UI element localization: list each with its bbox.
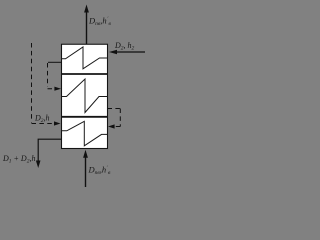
drain 1 dashed run into heater 2 [48,88,57,90]
feedwater inlet pipe (bottom) [85,155,87,187]
divider between heater 1 and heater 2 [62,73,108,75]
svg-text:D2, h2: D2, h2 [114,41,135,52]
long dashed extraction wire (left) [31,43,33,123]
heater 3 coil symbol [62,121,108,146]
combined drain arrowhead (down) [36,161,41,169]
divider between heater 2 and heater 3 [62,116,108,118]
svg-text:Dпв,h´в: Dпв,h´в [88,16,112,28]
heater column body [62,44,108,148]
dashed run into heater 3 [32,123,56,125]
drain bracket arrowhead into heater 3 [108,124,115,128]
drain bracket from heater 2 (right): dashed out run [108,108,121,110]
feedwater inlet arrowhead [83,150,88,158]
drain 1 dashed drop wire [47,63,49,87]
heater 2 coil symbol [62,79,108,113]
feedwater outlet pipe (top) [86,10,88,44]
steam inlet line (right of heater 1) [114,51,145,53]
drain stub out of heater 1 left side [48,61,62,63]
combined drain outlet wire (bottom left) [38,139,61,162]
drain bracket dashed drop [119,109,121,127]
heater 1 coil symbol [62,47,108,69]
svg-text:D1 + D2,h: D1 + D2,h [2,154,35,165]
feedwater outlet arrowhead [84,5,89,13]
drain bracket dashed return run [113,126,120,128]
drain 1 arrowhead into heater 2 [54,87,61,91]
svg-text:Dпв,h´в: Dпв,h´в [88,165,112,177]
arrowhead into heater 3 [54,121,61,125]
steam inlet arrowhead [109,50,117,55]
